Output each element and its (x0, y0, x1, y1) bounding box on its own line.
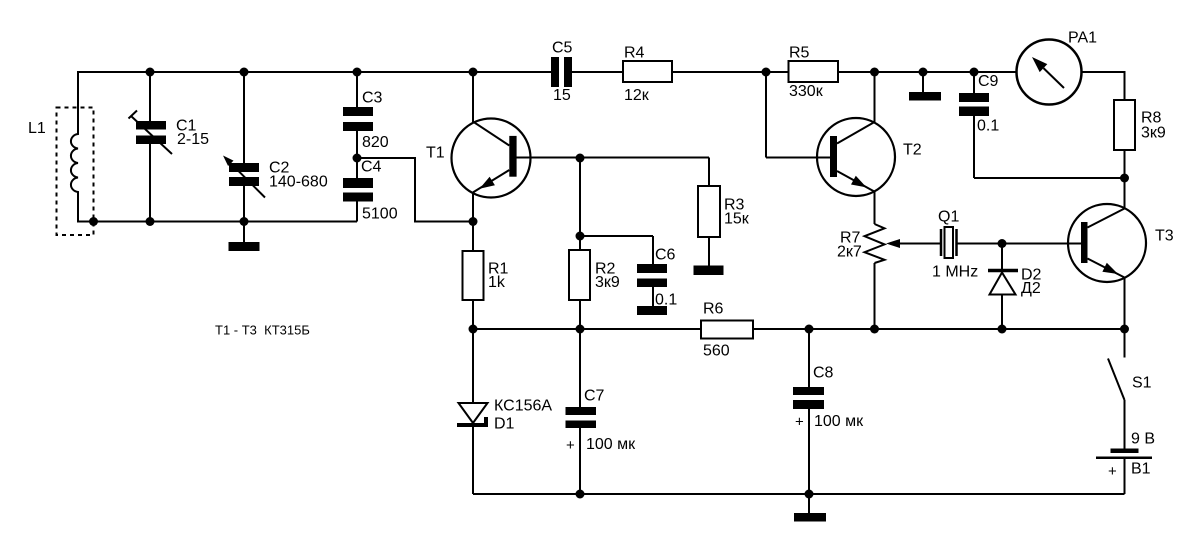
svg-text:Т1 - Т3 КТ315Б: Т1 - Т3 КТ315Б (215, 323, 310, 338)
svg-text:L1: L1 (28, 120, 46, 137)
transistor T2 (817, 118, 922, 196)
wire C4 node to T1 emitter (357, 158, 473, 222)
transistor T3 (1068, 204, 1174, 282)
resistor R8 (1114, 100, 1166, 178)
svg-text:3к9: 3к9 (1141, 125, 1166, 142)
potentiometer R7 (837, 224, 900, 329)
node D2 top (998, 239, 1007, 248)
ground on top rail (909, 72, 941, 101)
svg-text:2к7: 2к7 (837, 244, 862, 261)
ground below R3 (694, 266, 724, 276)
wire node to C6 (580, 236, 653, 264)
svg-text:820: 820 (362, 134, 389, 151)
wire mid bus left (473, 328, 701, 330)
resistor R6 (701, 301, 753, 360)
resistor R1 (463, 251, 509, 329)
svg-text:330к: 330к (789, 83, 824, 100)
svg-text:140-680: 140-680 (269, 174, 328, 191)
capacitor C1 (129, 72, 210, 222)
ground below C6 (637, 306, 667, 315)
node C1 bottom (146, 217, 155, 226)
node T1 emitter (469, 217, 478, 226)
wire mid bus right (753, 328, 1125, 330)
wire T2 collector (874, 71, 876, 122)
svg-text:C6: C6 (655, 247, 676, 264)
wire tank bottom rail (77, 221, 357, 223)
node C3/C4 junction (353, 154, 362, 163)
node C8 top (805, 325, 814, 334)
svg-text:C3: C3 (362, 90, 383, 107)
node C2 top (240, 68, 249, 77)
meter PA1 (1017, 30, 1098, 105)
svg-text:Q1: Q1 (938, 209, 959, 226)
svg-text:R6: R6 (703, 301, 724, 318)
wire top rail left (77, 71, 551, 73)
node C8 bottom (805, 490, 814, 499)
resistor R2 (569, 250, 620, 329)
svg-text:2-15: 2-15 (177, 131, 209, 148)
svg-text:+: + (795, 414, 804, 431)
svg-text:12к: 12к (624, 87, 650, 104)
svg-text:T2: T2 (903, 142, 922, 159)
svg-text:+: + (566, 437, 575, 454)
wire Q1 to T3 base (957, 243, 1082, 245)
wire Q1 to R7 wiper (889, 243, 941, 245)
node C2 bottom (240, 217, 249, 226)
wire T2 emitter down (874, 192, 876, 224)
node T2 collector top (870, 68, 879, 77)
wire C9 bottom to R8 bottom (974, 177, 1125, 179)
svg-text:C9: C9 (978, 73, 999, 90)
resistor R3 (698, 158, 750, 266)
wire T3 collector (1124, 178, 1126, 209)
transistor T1 (426, 119, 531, 198)
svg-text:T3: T3 (1155, 228, 1174, 245)
resistor R4 (623, 45, 672, 104)
node D2 bottom (998, 325, 1007, 334)
battery B1 (1096, 431, 1155, 494)
svg-text:C8: C8 (813, 365, 834, 382)
node base line (576, 154, 585, 163)
wire T1 collector (472, 71, 474, 122)
wire top rail R5 to PA1 (838, 71, 1017, 73)
wire top rail PA1 to R8 (1082, 72, 1125, 100)
svg-text:C4: C4 (361, 159, 382, 176)
wire T1 base node down to R2 (579, 158, 581, 251)
wire T1 base (516, 157, 709, 159)
node R5 left (762, 68, 771, 77)
wire top rail R4 to R5 (672, 71, 789, 73)
inductor L1 (28, 71, 94, 235)
node T1 collector top (469, 68, 478, 77)
wire bottom rail (473, 493, 1125, 495)
svg-text:S1: S1 (1132, 375, 1152, 392)
svg-text:Д2: Д2 (1021, 280, 1041, 297)
svg-text:T1: T1 (426, 145, 445, 162)
node C1 top (146, 68, 155, 77)
node R1 bottom (469, 325, 478, 334)
capacitor C7 (566, 329, 637, 494)
diode D2 (988, 244, 1042, 330)
svg-text:B1: B1 (1131, 461, 1151, 478)
svg-text:15: 15 (553, 87, 571, 104)
capacitor C6 (637, 247, 677, 309)
svg-text:R5: R5 (789, 45, 810, 62)
svg-text:100 мк: 100 мк (586, 436, 636, 453)
wire top rail C5 to R4 (572, 71, 623, 73)
node R2 bottom (576, 325, 585, 334)
svg-text:560: 560 (703, 343, 730, 360)
svg-text:PA1: PA1 (1068, 30, 1097, 47)
svg-text:КС156А: КС156А (494, 398, 552, 415)
node T3 emitter bottom (1120, 325, 1129, 334)
resistor R5 (789, 45, 839, 100)
node R7 bottom (870, 325, 879, 334)
ground below C8 (794, 494, 826, 522)
svg-text:15к: 15к (724, 211, 750, 228)
wire T2 base from R5 node (766, 71, 830, 158)
wire T1 emitter down (472, 192, 474, 251)
node ground top rail (919, 68, 928, 77)
node L1 bottom (89, 217, 98, 226)
capacitor C4 (343, 159, 398, 223)
svg-text:D1: D1 (494, 416, 515, 433)
capacitor C8 (793, 329, 864, 494)
switch S1 (1108, 329, 1152, 449)
svg-text:0.1: 0.1 (977, 118, 999, 135)
note T1-T3 type (215, 323, 310, 338)
svg-text:9 В: 9 В (1131, 431, 1155, 448)
svg-text:3к9: 3к9 (595, 274, 620, 291)
svg-text:100 мк: 100 мк (814, 413, 864, 430)
svg-text:+: + (1108, 463, 1117, 480)
wire T3 emitter down (1124, 278, 1126, 330)
zener diode D1 (457, 329, 552, 494)
node C9 top (970, 68, 979, 77)
node C7 bottom (576, 490, 585, 499)
capacitor C5 (551, 40, 573, 104)
capacitor C2 (223, 72, 328, 222)
ground below C2 (229, 222, 260, 252)
node R8 bottom (1120, 174, 1129, 183)
crystal Q1 (932, 209, 978, 281)
capacitor C9 (959, 72, 999, 178)
node C3 top (353, 68, 362, 77)
svg-text:C7: C7 (584, 388, 605, 405)
svg-text:5100: 5100 (362, 206, 398, 223)
node R2 top (576, 232, 585, 241)
svg-text:C5: C5 (552, 40, 573, 57)
svg-text:1 MHz: 1 MHz (932, 264, 978, 281)
svg-text:R4: R4 (624, 45, 645, 62)
capacitor C3 (343, 72, 389, 178)
svg-text:1k: 1k (488, 274, 506, 291)
